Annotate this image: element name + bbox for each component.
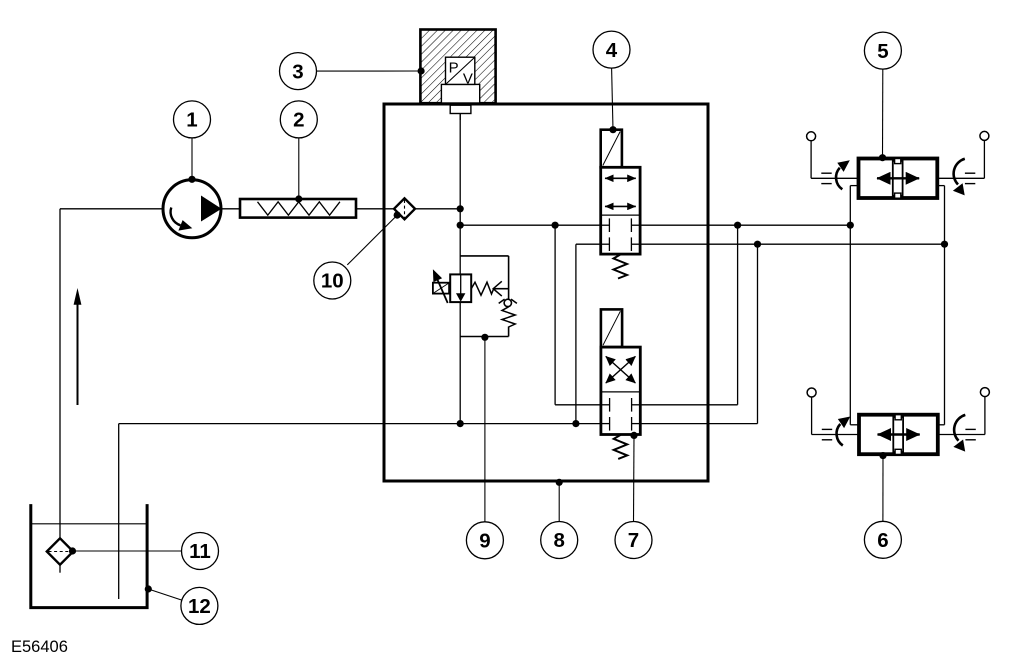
svg-text:V: V [463, 71, 473, 88]
svg-text:7: 7 [628, 529, 639, 552]
svg-text:1: 1 [186, 109, 197, 132]
svg-text:8: 8 [553, 529, 564, 552]
svg-text:11: 11 [189, 540, 211, 563]
svg-text:10: 10 [321, 270, 344, 293]
svg-text:2: 2 [293, 109, 304, 132]
svg-text:E56406: E56406 [11, 638, 68, 656]
svg-text:P: P [449, 60, 459, 77]
svg-text:9: 9 [479, 530, 490, 553]
svg-text:4: 4 [606, 39, 618, 62]
svg-text:5: 5 [877, 40, 888, 63]
svg-text:12: 12 [188, 595, 211, 618]
svg-text:3: 3 [292, 60, 303, 83]
svg-text:6: 6 [877, 529, 888, 552]
